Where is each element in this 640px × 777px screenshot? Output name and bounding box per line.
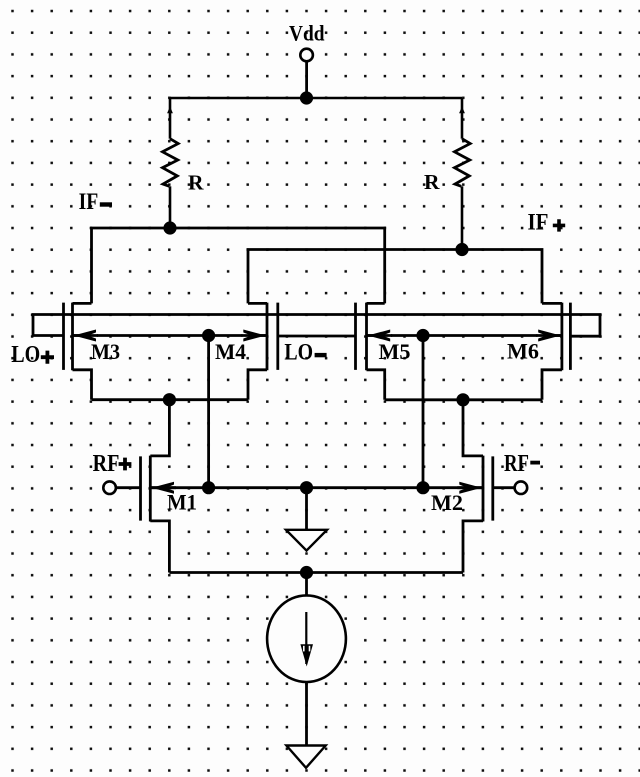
junction bulk left drop <box>202 481 215 494</box>
wire bulk bus M1-M2 <box>150 486 483 489</box>
wire RF+ gate lead <box>116 486 141 489</box>
svg-text:R: R <box>188 171 204 195</box>
svg-text:IF: IF <box>528 209 549 234</box>
junction bulk center <box>300 481 313 494</box>
wire LO- net <box>278 335 356 338</box>
wire IF- net <box>92 228 385 303</box>
ground (tail) <box>286 746 325 768</box>
junction IF+ resistor node <box>455 243 468 256</box>
svg-text:Vdd: Vdd <box>289 20 325 45</box>
junction bulk M5-M6 <box>416 329 429 342</box>
wire bulk bus M5-M6 <box>367 334 562 337</box>
svg-text:LO: LO <box>284 339 313 364</box>
current direction tick (right) <box>459 106 465 113</box>
wire M1 drain lead <box>150 400 169 456</box>
transistor M2 <box>457 456 493 573</box>
svg-text:LO: LO <box>11 342 40 368</box>
terminal Vdd <box>300 49 313 62</box>
junction IF- resistor node <box>163 221 176 234</box>
wire Vdd stub <box>305 62 308 99</box>
svg-text:R: R <box>424 170 440 194</box>
wire bulk drop left <box>207 336 210 488</box>
svg-text:M2: M2 <box>431 490 463 515</box>
current source I1 <box>267 595 346 682</box>
transistor M5 <box>356 303 393 400</box>
ground (bulk) <box>286 530 327 551</box>
transistor M3 <box>64 303 99 400</box>
wire bulk drop right <box>422 336 425 488</box>
terminal RF+ <box>103 481 116 494</box>
wire IF+ net <box>248 250 542 304</box>
resistor R2 (right) <box>455 139 471 187</box>
wire source bus M1-M2 <box>169 571 463 574</box>
svg-text:M1: M1 <box>167 489 197 514</box>
transistor M6 <box>536 303 570 400</box>
transistor M4 <box>241 303 277 400</box>
wire source bus M3-M4 <box>92 398 249 401</box>
wire RF- gate lead <box>493 486 515 489</box>
junction tail node <box>300 566 313 579</box>
resistor R1 (left) <box>163 139 179 187</box>
wire right resistor bottom lead <box>461 186 464 249</box>
wire bulk bus M3-M4 <box>73 334 268 337</box>
junction bulk right drop <box>416 481 429 494</box>
svg-text:M6: M6 <box>507 339 539 364</box>
svg-text:RF: RF <box>93 451 120 477</box>
wire left resistor bottom lead <box>169 186 172 228</box>
wire bulk ground drop <box>305 488 308 530</box>
wire LO+ net <box>33 315 600 337</box>
wire Vdd rail <box>170 97 462 100</box>
junction source bus left <box>163 393 176 406</box>
wire left resistor top lead <box>169 98 172 139</box>
svg-text:M3: M3 <box>91 339 120 364</box>
current direction tick (left) <box>167 106 173 113</box>
junction bulk M3-M4 <box>202 329 215 342</box>
wire M2 drain lead <box>463 400 483 456</box>
svg-text:RF: RF <box>504 451 529 477</box>
wire current source bottom lead <box>305 682 308 746</box>
wire tail drop <box>305 573 308 596</box>
terminal RF- <box>515 481 528 494</box>
svg-text:IF: IF <box>79 189 99 214</box>
wire source bus M5-M6 <box>385 398 542 401</box>
svg-text:M5: M5 <box>379 339 411 364</box>
wire right resistor top lead <box>461 98 464 139</box>
transistor M1 <box>141 456 177 573</box>
junction Vdd node <box>300 91 313 104</box>
junction source bus right <box>456 393 469 406</box>
svg-text:M4: M4 <box>215 339 246 364</box>
